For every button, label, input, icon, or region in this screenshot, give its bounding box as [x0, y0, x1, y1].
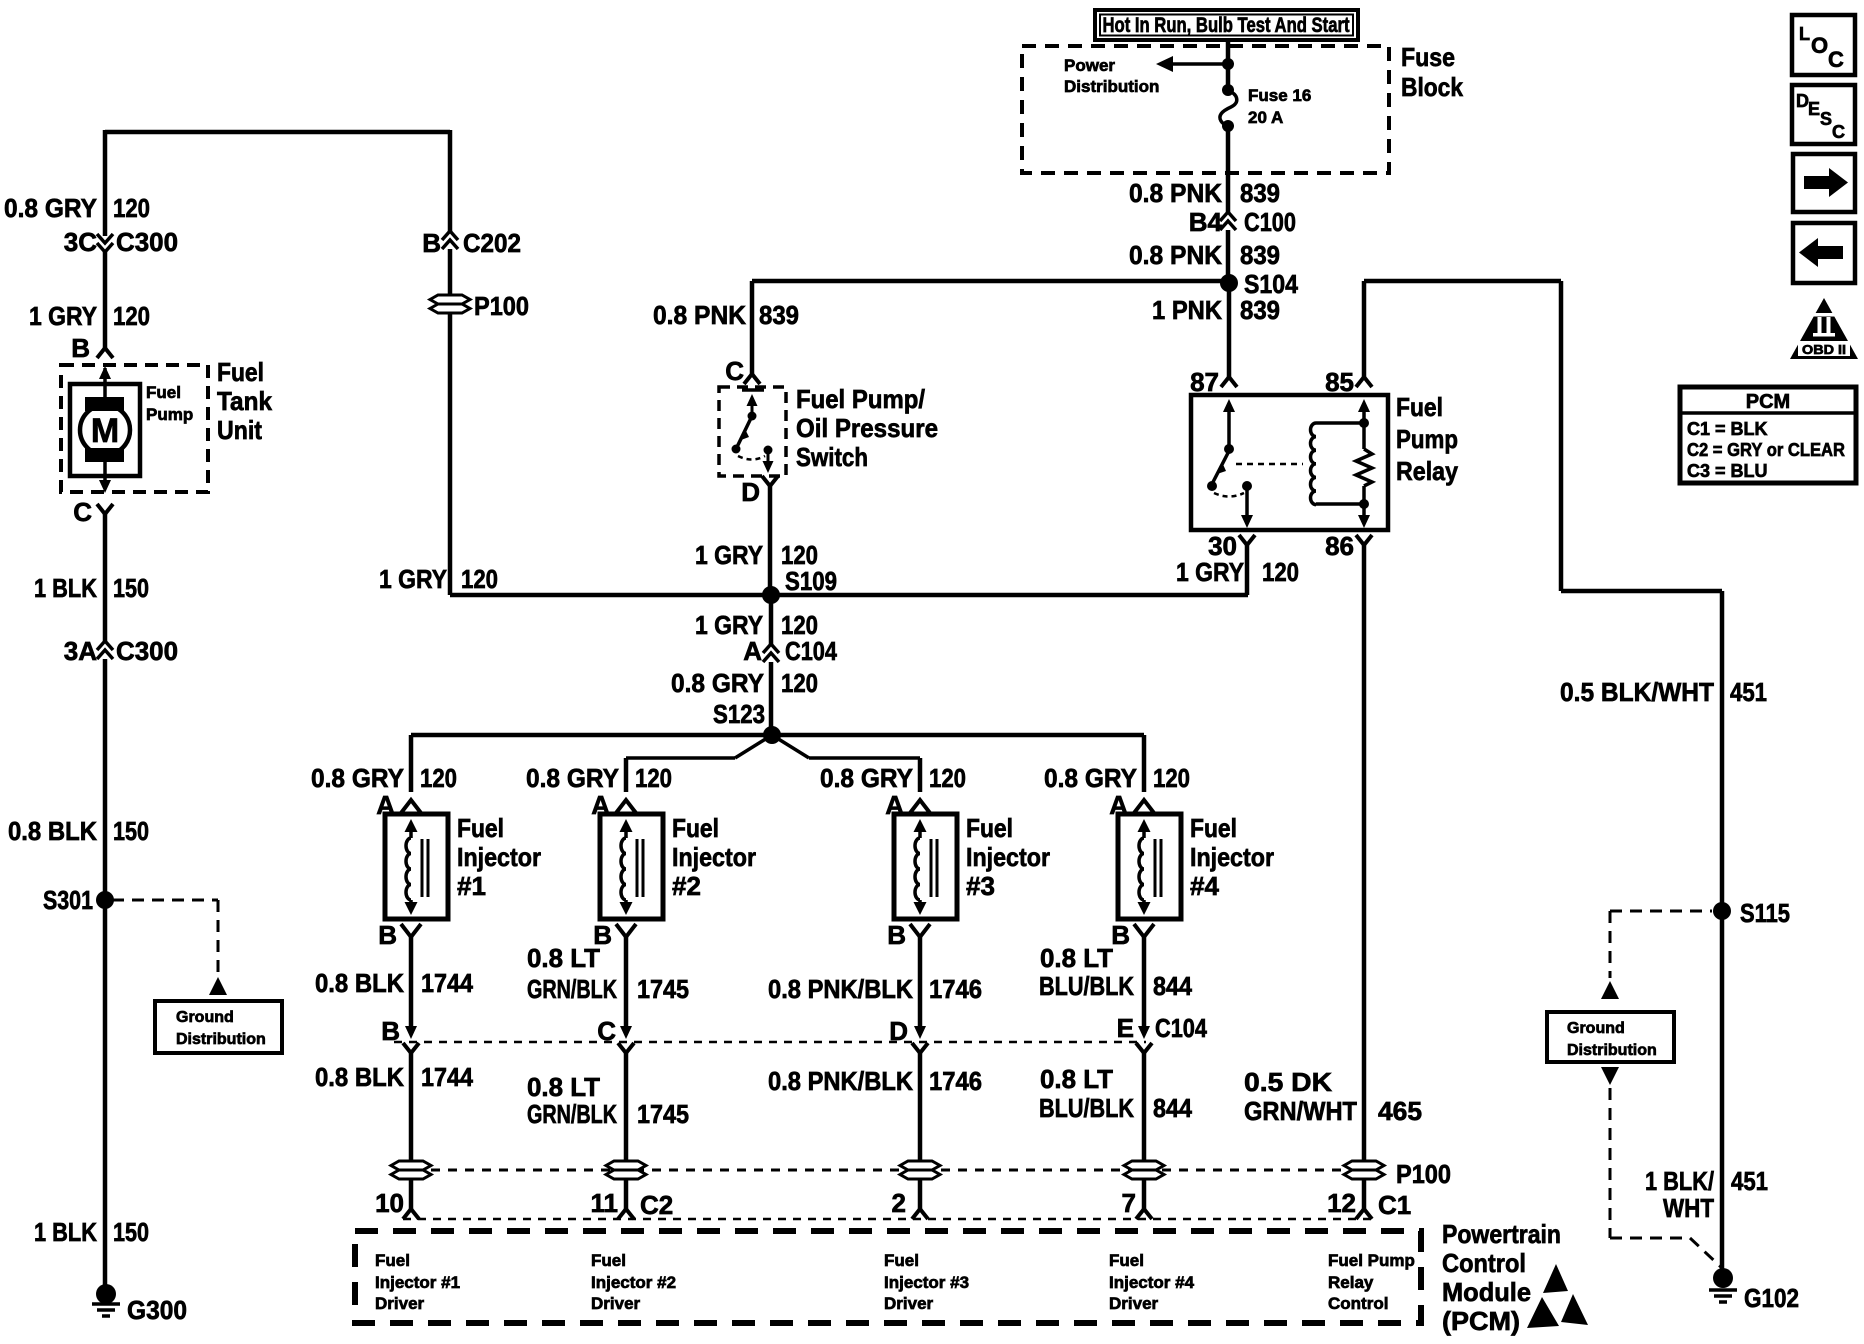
svg-text:85: 85 — [1325, 367, 1354, 397]
svg-text:0.8 BLK: 0.8 BLK — [315, 968, 404, 998]
svg-text:#1: #1 — [457, 871, 486, 901]
svg-text:12: 12 — [1327, 1188, 1356, 1218]
svg-text:1 PNK: 1 PNK — [1152, 295, 1222, 325]
svg-text:Module: Module — [1442, 1277, 1531, 1307]
svg-text:Block: Block — [1401, 72, 1463, 102]
svg-text:(PCM): (PCM) — [1442, 1306, 1520, 1336]
connector C104 chevron injector 2 — [618, 1043, 634, 1053]
svg-text:Fuel: Fuel — [884, 1251, 919, 1270]
dashed link ground distribution to G102 — [1601, 1067, 1619, 1085]
svg-text:Fuel: Fuel — [672, 813, 719, 843]
svg-text:451: 451 — [1730, 677, 1767, 707]
svg-text:839: 839 — [1240, 295, 1280, 325]
grommet P100 injector 3 — [900, 1161, 940, 1170]
svg-text:Relay: Relay — [1328, 1273, 1374, 1292]
svg-text:120: 120 — [635, 763, 672, 793]
svg-text:BLU/BLK: BLU/BLK — [1039, 1093, 1134, 1123]
wire injector 2 output — [624, 935, 629, 1028]
svg-text:G102: G102 — [1744, 1283, 1799, 1313]
svg-text:Ground: Ground — [176, 1009, 234, 1026]
svg-text:Driver: Driver — [591, 1294, 641, 1313]
svg-text:GRN/BLK: GRN/BLK — [527, 974, 617, 1004]
fuel injector #1 — [385, 800, 448, 937]
svg-text:Fuel: Fuel — [217, 357, 264, 387]
svg-text:844: 844 — [1153, 971, 1192, 1001]
svg-text:Fuel Pump: Fuel Pump — [1328, 1251, 1415, 1270]
svg-text:1745: 1745 — [637, 974, 689, 1004]
svg-text:3A: 3A — [64, 636, 97, 666]
connector C104 chevron injector 3 — [912, 1043, 928, 1053]
ground G300 — [96, 1284, 116, 1304]
fuel pump relay box — [1191, 395, 1388, 530]
grommet P100 relay control wire — [1344, 1161, 1384, 1170]
svg-text:1744: 1744 — [421, 968, 473, 998]
fuel injector #4 — [1118, 800, 1181, 937]
svg-text:C2: C2 — [640, 1190, 673, 1220]
wire 0.8 BLK 150 — [103, 659, 108, 1295]
svg-text:150: 150 — [113, 573, 149, 603]
svg-text:Power: Power — [1064, 56, 1115, 75]
svg-text:0.8 PNK: 0.8 PNK — [1129, 240, 1222, 270]
relay resistor — [1358, 399, 1370, 412]
svg-text:Injector: Injector — [672, 842, 756, 872]
svg-text:D: D — [741, 477, 760, 507]
svg-text:120: 120 — [113, 193, 150, 223]
svg-text:O: O — [1811, 33, 1828, 58]
ground G102 — [1713, 1268, 1733, 1288]
wire 0.8 PNK 839 — [1226, 126, 1231, 212]
svg-text:C300: C300 — [116, 227, 178, 257]
svg-text:Oil Pressure: Oil Pressure — [796, 413, 938, 443]
svg-text:Fuel Pump/: Fuel Pump/ — [796, 384, 925, 414]
PCM connector legend box — [1680, 387, 1856, 483]
svg-text:10: 10 — [375, 1188, 404, 1218]
svg-text:1 GRY: 1 GRY — [1176, 557, 1244, 587]
svg-text:Distribution: Distribution — [1064, 77, 1159, 96]
svg-text:0.8 LT: 0.8 LT — [1040, 943, 1113, 973]
svg-text:839: 839 — [1240, 178, 1280, 208]
svg-text:C1: C1 — [1378, 1190, 1411, 1220]
splice S109 — [762, 586, 780, 604]
svg-text:GRN/WHT: GRN/WHT — [1244, 1096, 1357, 1126]
fuse F16 20A — [1222, 84, 1234, 96]
fuel injector #2 — [600, 800, 663, 937]
svg-text:Injector #2: Injector #2 — [591, 1273, 676, 1292]
svg-text:#2: #2 — [672, 871, 701, 901]
arrow to power distribution — [1222, 58, 1234, 70]
svg-text:Tank: Tank — [217, 386, 272, 416]
svg-text:0.8 PNK/BLK: 0.8 PNK/BLK — [768, 974, 913, 1004]
wire 1 GRY 120 — [103, 252, 108, 348]
wire injector 3 to PCM — [918, 1053, 923, 1161]
svg-text:C300: C300 — [116, 636, 178, 666]
wire 0.8 PNK 839 below C100 — [1226, 230, 1231, 283]
svg-text:A: A — [743, 636, 762, 666]
relay coil — [1310, 423, 1316, 505]
wire injector 1 to PCM — [409, 1053, 414, 1161]
svg-text:Fuel: Fuel — [375, 1251, 410, 1270]
wire injector 3 output — [918, 935, 923, 1028]
wire dashed to ground distribution — [112, 899, 218, 902]
wire 0.8 GRY 120 to injector 1 — [409, 735, 414, 792]
svg-text:1 GRY: 1 GRY — [695, 540, 763, 570]
svg-text:Fuel: Fuel — [1109, 1251, 1144, 1270]
svg-text:Pump: Pump — [1396, 424, 1458, 454]
svg-text:C104: C104 — [1155, 1013, 1207, 1043]
svg-text:0.8 LT: 0.8 LT — [527, 1072, 600, 1102]
svg-text:Pump: Pump — [146, 405, 193, 424]
connector C104 dashed line — [394, 1041, 1146, 1044]
icon back arrow button — [1793, 223, 1855, 283]
splice S115 — [1713, 902, 1731, 920]
svg-text:PCM: PCM — [1746, 391, 1790, 413]
svg-text:B: B — [378, 920, 397, 950]
svg-text:Fuse: Fuse — [1401, 42, 1455, 72]
pin chevron PCM injector 2 — [618, 1209, 634, 1219]
wire 1 BLK 150 — [103, 514, 108, 641]
svg-text:Injector #4: Injector #4 — [1109, 1273, 1195, 1292]
svg-text:OBD II: OBD II — [1802, 342, 1846, 357]
svg-text:C2 = GRY or CLEAR: C2 = GRY or CLEAR — [1687, 440, 1845, 460]
svg-text:Unit: Unit — [217, 415, 262, 445]
svg-text:GRN/BLK: GRN/BLK — [527, 1099, 617, 1129]
svg-text:C: C — [1832, 122, 1845, 142]
svg-text:839: 839 — [1240, 240, 1280, 270]
wire from banner into fuse block — [1226, 40, 1231, 89]
svg-text:C: C — [725, 356, 744, 386]
svg-text:120: 120 — [781, 668, 818, 698]
svg-text:1746: 1746 — [929, 974, 982, 1004]
wire 0.5 DK GRN/WHT 465 from pin 86 — [1362, 545, 1367, 1161]
grommet P100 — [430, 295, 470, 304]
svg-text:0.8 GRY: 0.8 GRY — [671, 668, 764, 698]
svg-text:844: 844 — [1153, 1093, 1192, 1123]
svg-text:0.8 GRY: 0.8 GRY — [526, 763, 619, 793]
svg-text:Relay: Relay — [1396, 456, 1458, 486]
fuel pump M1 motor — [70, 384, 140, 476]
svg-text:1 BLK: 1 BLK — [34, 573, 97, 603]
svg-text:120: 120 — [461, 564, 498, 594]
svg-text:11: 11 — [591, 1188, 619, 1218]
svg-text:C1 = BLK: C1 = BLK — [1687, 419, 1768, 439]
svg-text:3C: 3C — [64, 227, 97, 257]
svg-text:0.8 PNK: 0.8 PNK — [1129, 178, 1222, 208]
svg-text:P100: P100 — [1396, 1159, 1451, 1189]
svg-text:Hot In Run, Bulb Test And Star: Hot In Run, Bulb Test And Start — [1103, 14, 1350, 37]
wire injector 2 to PCM — [624, 1053, 629, 1161]
fuse block dashed box — [1022, 46, 1389, 173]
wire 0.8 PNK 839 branch to switch — [752, 279, 1229, 284]
svg-text:B4: B4 — [1189, 207, 1223, 237]
wire 1 PNK 839 to relay 87 — [1227, 283, 1232, 377]
ground distribution label box (right) — [1547, 1012, 1674, 1062]
banner Hot In Run, Bulb Test And Start — [1095, 10, 1358, 40]
svg-text:Fuel: Fuel — [1396, 392, 1443, 422]
svg-text:B: B — [71, 333, 90, 363]
svg-text:150: 150 — [113, 1217, 149, 1247]
wire 0.5 BLK/WHT 451 — [1561, 589, 1722, 594]
svg-text:1 BLK: 1 BLK — [34, 1217, 97, 1247]
fuel tank unit dashed box — [61, 365, 208, 492]
svg-text:Powertrain: Powertrain — [1442, 1219, 1561, 1249]
fuel injector #3 — [894, 800, 957, 937]
grommet P100 injector 4 — [1124, 1161, 1164, 1170]
bulkhead P100 dashed line — [431, 1169, 1343, 1172]
wire injector 1 output — [409, 935, 414, 1028]
wire branch diagonals — [735, 735, 772, 758]
pin chevron PCM injector 4 — [1136, 1209, 1152, 1219]
svg-text:Injector #3: Injector #3 — [884, 1273, 969, 1292]
svg-text:M: M — [91, 412, 119, 450]
svg-text:0.8 BLK: 0.8 BLK — [315, 1062, 404, 1092]
svg-text:1745: 1745 — [637, 1099, 689, 1129]
svg-text:0.8 GRY: 0.8 GRY — [311, 763, 404, 793]
svg-text:0.8 GRY: 0.8 GRY — [4, 193, 97, 223]
svg-text:120: 120 — [113, 301, 150, 331]
icon LOC button — [1792, 15, 1855, 75]
svg-text:L: L — [1799, 24, 1810, 44]
svg-text:150: 150 — [113, 816, 149, 846]
svg-text:Injector: Injector — [966, 842, 1050, 872]
svg-text:87: 87 — [1190, 367, 1219, 397]
wire 0.8 GRY 120 to injector 2 — [624, 758, 629, 792]
pin chevron PCM injector 1 — [403, 1209, 419, 1219]
wire 0.8 GRY 120 to S123 — [769, 662, 774, 735]
pin chevron PCM injector 3 — [912, 1209, 928, 1219]
ground distribution label box (left) — [155, 1001, 282, 1053]
relay contact to pin 30 — [1245, 486, 1249, 516]
PCM connector face dashed line — [403, 1218, 1372, 1221]
wire to C202 — [448, 130, 453, 232]
svg-text:120: 120 — [1262, 557, 1299, 587]
svg-text:Fuel: Fuel — [966, 813, 1013, 843]
svg-text:#4: #4 — [1190, 871, 1219, 901]
svg-text:Fuel: Fuel — [457, 813, 504, 843]
svg-text:BLU/BLK: BLU/BLK — [1039, 971, 1134, 1001]
svg-text:0.8 GRY: 0.8 GRY — [1044, 763, 1137, 793]
svg-text:0.8 PNK/BLK: 0.8 PNK/BLK — [768, 1066, 913, 1096]
grommet P100 injector 1 — [391, 1161, 431, 1170]
svg-text:C202: C202 — [463, 228, 521, 258]
svg-text:1 GRY: 1 GRY — [379, 564, 447, 594]
wire 0.8 GRY 120 top horizontal — [105, 130, 450, 135]
svg-text:0.8 GRY: 0.8 GRY — [820, 763, 913, 793]
svg-text:Driver: Driver — [375, 1294, 425, 1313]
powertrain control module dashed box — [355, 1231, 1421, 1323]
svg-text:B: B — [422, 228, 441, 258]
svg-text:S: S — [1820, 109, 1832, 129]
svg-text:Switch: Switch — [796, 442, 868, 472]
svg-text:B: B — [1111, 920, 1130, 950]
svg-text:1746: 1746 — [929, 1066, 982, 1096]
splice S104 — [1220, 274, 1238, 292]
pin chevron PCM relay control — [1356, 1209, 1372, 1219]
svg-text:#3: #3 — [966, 871, 995, 901]
svg-text:S123: S123 — [713, 699, 765, 729]
svg-text:0.8 BLK: 0.8 BLK — [8, 816, 97, 846]
svg-text:S109: S109 — [785, 566, 837, 596]
svg-text:0.5 DK: 0.5 DK — [1244, 1067, 1332, 1097]
svg-text:Fuse 16: Fuse 16 — [1248, 86, 1311, 105]
svg-text:7: 7 — [1122, 1188, 1136, 1218]
svg-text:Driver: Driver — [884, 1294, 934, 1313]
fuel pump / oil pressure switch box — [719, 387, 786, 476]
svg-text:0.8 LT: 0.8 LT — [1040, 1064, 1113, 1094]
wire 0.8 GRY 120 to injector 4 — [1142, 735, 1147, 792]
svg-text:S301: S301 — [43, 885, 93, 915]
svg-text:P100: P100 — [474, 291, 529, 321]
svg-text:86: 86 — [1325, 531, 1354, 561]
wire 0.8 GRY 120 to injector 3 — [918, 758, 923, 792]
svg-text:Control: Control — [1328, 1294, 1388, 1313]
dashed link S115 to ground distribution — [1610, 910, 1712, 913]
wire injector 4 to PCM — [1142, 1053, 1147, 1161]
svg-text:E: E — [1808, 99, 1820, 119]
relay blade — [1212, 451, 1229, 484]
relay actuation dashed link — [1236, 463, 1303, 466]
icon DESC button — [1792, 85, 1855, 144]
svg-text:Fuel: Fuel — [146, 383, 181, 402]
svg-text:20 A: 20 A — [1248, 108, 1283, 127]
svg-text:WHT: WHT — [1663, 1193, 1714, 1223]
svg-text:Ground: Ground — [1567, 1020, 1625, 1037]
switch internals — [742, 388, 764, 392]
wire 0.8 GRY 120 S123 bus — [411, 733, 1144, 738]
svg-text:2: 2 — [892, 1188, 906, 1218]
svg-text:G300: G300 — [127, 1295, 187, 1325]
svg-text:C3 = BLU: C3 = BLU — [1687, 461, 1768, 481]
svg-text:C: C — [1828, 47, 1844, 72]
icon OBD II triangle — [1790, 298, 1858, 359]
icon forward arrow button — [1793, 154, 1855, 212]
svg-text:E: E — [1117, 1013, 1134, 1043]
svg-text:Fuel: Fuel — [1190, 813, 1237, 843]
connector C104 chevron injector 1 — [403, 1043, 419, 1053]
svg-text:C100: C100 — [1244, 207, 1296, 237]
svg-text:120: 120 — [929, 763, 966, 793]
wire injector 4 output — [1142, 935, 1147, 1028]
wire 1 GRY 120 below S109 — [769, 595, 774, 645]
svg-text:Injector #1: Injector #1 — [375, 1273, 460, 1292]
svg-text:Fuel: Fuel — [591, 1251, 626, 1270]
relay switch contact 87 — [1223, 399, 1235, 412]
svg-text:839: 839 — [759, 300, 799, 330]
svg-text:1 GRY: 1 GRY — [29, 301, 97, 331]
svg-text:C: C — [73, 497, 92, 527]
ESD sensitive symbol — [1543, 1264, 1568, 1293]
wire 1 GRY 120 from pin 30 — [1245, 545, 1250, 595]
wire 1 GRY 120 down to junction line — [448, 313, 453, 595]
svg-text:451: 451 — [1731, 1166, 1768, 1196]
svg-text:S115: S115 — [1740, 898, 1790, 928]
svg-text:Injector: Injector — [457, 842, 541, 872]
svg-text:0.5 BLK/WHT: 0.5 BLK/WHT — [1560, 677, 1714, 707]
grommet P100 injector 2 — [606, 1161, 646, 1170]
wire from 85 up and right — [1362, 281, 1367, 377]
svg-text:Control: Control — [1442, 1248, 1526, 1278]
connector C104 chevron injector 4 — [1136, 1043, 1152, 1053]
svg-text:Injector: Injector — [1190, 842, 1274, 872]
svg-text:B: B — [887, 920, 906, 950]
wire 1 GRY 120 from switch D — [768, 486, 773, 595]
svg-text:0.8 PNK: 0.8 PNK — [653, 300, 746, 330]
wire 1 GRY 120 long horizontal — [450, 593, 1248, 598]
svg-text:0.8 LT: 0.8 LT — [527, 943, 600, 973]
svg-text:Driver: Driver — [1109, 1294, 1159, 1313]
svg-text:Distribution: Distribution — [176, 1031, 266, 1048]
svg-text:Distribution: Distribution — [1567, 1042, 1657, 1059]
wire left vertical feed — [103, 130, 108, 236]
svg-text:120: 120 — [420, 763, 457, 793]
svg-text:120: 120 — [1153, 763, 1190, 793]
svg-text:465: 465 — [1378, 1096, 1422, 1126]
svg-text:C104: C104 — [785, 636, 837, 666]
svg-text:1744: 1744 — [421, 1062, 473, 1092]
svg-text:1 BLK/: 1 BLK/ — [1645, 1166, 1714, 1196]
